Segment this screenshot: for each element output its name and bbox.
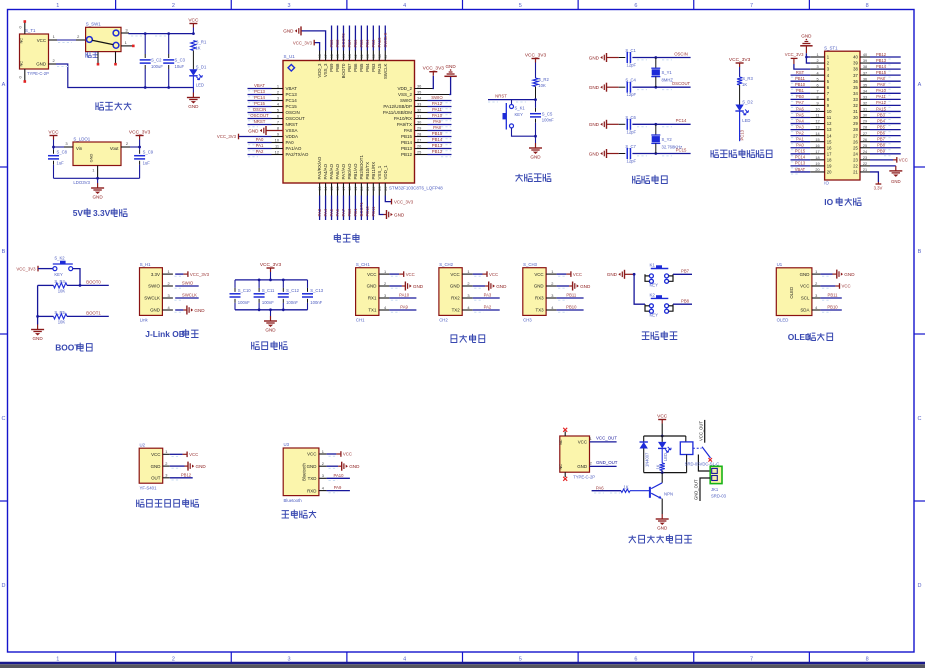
svg-text:PB14: PB14: [876, 64, 887, 69]
svg-text:31: 31: [853, 109, 858, 114]
svg-text:PB8: PB8: [681, 299, 690, 304]
svg-text:8: 8: [866, 3, 869, 9]
svg-text:OSCIN: OSCIN: [253, 107, 267, 112]
svg-text:TX2: TX2: [452, 308, 461, 313]
U3 pin4 net PA9: [327, 490, 350, 492]
U1 bottom pin 18 PB0/AO: [348, 183, 350, 196]
svg-text:100nF: 100nF: [238, 300, 250, 305]
svg-text:PB6: PB6: [353, 63, 358, 72]
U1 VDD_1 pin24 to VCC_3V3: [385, 196, 391, 202]
svg-text:BOOT0: BOOT0: [341, 33, 346, 48]
svg-text:PB12: PB12: [181, 472, 192, 477]
VCC_3V3 filter: [270, 268, 272, 272]
svg-text:40: 40: [366, 54, 370, 58]
svg-text:PB15: PB15: [432, 131, 443, 136]
U1 top pin 45 PB8: [337, 51, 339, 61]
U1 bottom pin 19 PB1/AO: [354, 183, 356, 196]
svg-text:4: 4: [322, 485, 325, 490]
connector S_CH2: [439, 268, 462, 316]
svg-text:PB7: PB7: [347, 39, 352, 48]
typec bottom pin: [564, 472, 566, 477]
svg-text:10: 10: [827, 109, 832, 114]
svg-text:NC: NC: [19, 61, 24, 67]
svg-text:BOOT1: BOOT1: [359, 202, 364, 217]
capacitor S_C13 100nF: [307, 280, 309, 288]
svg-text:PC14: PC14: [254, 95, 265, 100]
svg-text:PB10: PB10: [365, 206, 370, 217]
OLED pin1 GND: [820, 273, 832, 275]
svg-text:NRST: NRST: [495, 93, 507, 98]
svg-text:PB7: PB7: [347, 63, 352, 72]
svg-text:PB10: PB10: [566, 305, 577, 310]
svg-text:3: 3: [815, 293, 817, 298]
svg-text:1: 1: [551, 269, 553, 274]
svg-text:S_C2: S_C2: [151, 58, 162, 63]
svg-text:GND: GND: [188, 104, 199, 109]
svg-text:S_ST1: S_ST1: [824, 45, 838, 50]
svg-text:S_R5: S_R5: [54, 310, 65, 315]
U2 pin1 VCC: [170, 453, 183, 455]
svg-text:PA0: PA0: [796, 143, 804, 148]
jlink pin3 SWCLK net: [175, 297, 199, 299]
svg-text:IO: IO: [824, 181, 829, 186]
svg-text:PA12: PA12: [432, 101, 443, 106]
svg-text:4: 4: [403, 657, 406, 663]
svg-text:PA9: PA9: [400, 305, 408, 310]
svg-text:22: 22: [372, 187, 376, 191]
svg-text:VCC: VCC: [450, 272, 459, 277]
CH1 pin3 net PA10: [389, 297, 416, 299]
U1 top pin 40 PB4: [366, 51, 368, 61]
SW1 pin1 wire: [121, 45, 132, 47]
U1 top pin 46 PB9: [331, 51, 333, 61]
svg-text:3: 3: [551, 293, 553, 298]
svg-text:7: 7: [750, 657, 753, 663]
svg-text:RX3: RX3: [535, 296, 544, 301]
svg-text:S_R2: S_R2: [538, 77, 549, 82]
title main chip: [334, 233, 359, 242]
svg-text:VDD_3: VDD_3: [317, 63, 322, 78]
svg-text:U2: U2: [140, 442, 146, 447]
svg-text:BOOT0: BOOT0: [341, 63, 346, 78]
svg-text:24: 24: [384, 187, 388, 191]
svg-text:PA7/AO: PA7/AO: [341, 163, 346, 179]
wire GND_OUT: [590, 465, 617, 467]
svg-text:PB9: PB9: [329, 39, 334, 48]
svg-text:S_SW1: S_SW1: [86, 22, 101, 27]
relay top rail: [644, 435, 686, 437]
title dianyuan dianlu: [96, 102, 132, 110]
CH3 pin3 net PB11: [557, 297, 584, 299]
svg-text:PA8: PA8: [877, 76, 885, 81]
svg-text:2: 2: [126, 141, 129, 146]
capacitor S_C7 12pF: [619, 153, 626, 155]
ground relay: [661, 514, 663, 519]
svg-text:35: 35: [853, 85, 858, 90]
svg-text:48: 48: [318, 54, 322, 58]
VCC_3V3 symbol LDO out: [139, 136, 141, 140]
svg-text:VCC_3V3: VCC_3V3: [217, 134, 237, 139]
connector U2 YF-S401: [139, 448, 163, 483]
svg-text:VSS_3: VSS_3: [323, 63, 328, 77]
title bluetooth module: [282, 510, 317, 518]
svg-text:20: 20: [827, 170, 832, 175]
svg-text:PA1: PA1: [796, 137, 804, 142]
svg-text:PA10: PA10: [334, 473, 345, 478]
svg-text:47: 47: [324, 54, 328, 58]
svg-text:5: 5: [519, 3, 522, 9]
svg-text:PC15: PC15: [254, 101, 265, 106]
svg-text:18: 18: [827, 157, 832, 162]
svg-text:RST: RST: [796, 70, 805, 75]
svg-text:GND: GND: [607, 272, 618, 277]
svg-text:PB0: PB0: [347, 208, 352, 217]
svg-text:K2: K2: [650, 292, 656, 297]
title keys circuit: [642, 331, 678, 340]
svg-text:3: 3: [288, 3, 291, 9]
CH1 pin1 VCC: [389, 273, 399, 275]
U3 pin1 VCC: [327, 453, 337, 455]
svg-text:2: 2: [384, 281, 386, 286]
svg-text:VCC: VCC: [188, 18, 199, 24]
svg-text:Vin: Vin: [76, 146, 83, 151]
svg-text:Link: Link: [140, 317, 149, 322]
svg-text:1: 1: [322, 449, 324, 454]
svg-text:42: 42: [354, 54, 358, 58]
svg-text:VCC: VCC: [189, 452, 198, 457]
svg-text:1: 1: [53, 34, 56, 39]
svg-text:VCC_3V3: VCC_3V3: [190, 272, 210, 277]
svg-text:RXD: RXD: [307, 488, 316, 493]
svg-text:PA0: PA0: [286, 140, 295, 145]
U2 pin3 net PB12: [170, 477, 193, 479]
crystal S_Y2 32.768KHz: [654, 123, 657, 126]
svg-text:100nF: 100nF: [542, 118, 554, 123]
svg-text:Bluetooth: Bluetooth: [284, 498, 303, 503]
capacitor S_C5 100nF: [535, 100, 537, 108]
svg-text:PB13: PB13: [876, 58, 887, 63]
U1 top pin 41 PB5: [360, 51, 362, 61]
svg-text:SWIO: SWIO: [400, 98, 412, 103]
svg-text:PC13: PC13: [795, 161, 806, 166]
svg-text:VCC: VCC: [534, 272, 543, 277]
U1 bottom pin 17 PA7/AO: [342, 183, 344, 196]
svg-text:GND: GND: [496, 284, 507, 289]
connector U1 OLED: [776, 268, 812, 316]
ground LDO: [97, 178, 99, 183]
U1 bottom pin 21 PB10/TX: [366, 183, 368, 196]
GND_OUT wire: [700, 478, 710, 501]
CH2 pin3 net PA3: [473, 297, 500, 299]
CH3 pin2 GND: [557, 285, 570, 287]
key S_K2 KEY: [53, 267, 57, 271]
svg-text:VCC: VCC: [800, 284, 809, 289]
svg-text:KEY: KEY: [54, 272, 63, 277]
svg-text:SWCLK: SWCLK: [383, 32, 388, 47]
svg-text:3: 3: [384, 293, 386, 298]
U1 top pin 42 PB6: [354, 51, 356, 61]
svg-text:PA5: PA5: [329, 208, 334, 216]
svg-text:PA12: PA12: [876, 100, 886, 105]
svg-text:3: 3: [288, 657, 291, 663]
svg-text:PB11/RX: PB11/RX: [371, 162, 376, 180]
ST1 pin21 3.3V: [870, 172, 878, 182]
svg-text:100nF: 100nF: [310, 300, 322, 305]
svg-text:GND: GND: [413, 284, 424, 289]
svg-text:1: 1: [56, 657, 59, 663]
connector S_CH3: [523, 268, 546, 316]
svg-text:8MHZ: 8MHZ: [662, 78, 674, 83]
svg-text:STM32F103C8T6_LQFP48: STM32F103C8T6_LQFP48: [389, 186, 443, 191]
svg-text:PB13: PB13: [432, 143, 443, 148]
connector TYPE-C-2P output: [560, 436, 590, 472]
svg-text:S_C12: S_C12: [286, 288, 299, 293]
svg-text:PB8: PB8: [335, 63, 340, 72]
svg-text:VCC_3V3: VCC_3V3: [16, 266, 36, 271]
svg-text:S_C9: S_C9: [143, 150, 154, 155]
svg-text:PB6: PB6: [877, 130, 885, 135]
svg-text:PA3: PA3: [317, 208, 322, 216]
svg-text:37: 37: [384, 54, 388, 58]
svg-text:VCC_3V3: VCC_3V3: [260, 262, 282, 268]
svg-text:12pF: 12pF: [627, 63, 637, 68]
svg-text:22: 22: [853, 164, 858, 169]
svg-text:46: 46: [330, 54, 334, 58]
svg-text:VSSA: VSSA: [286, 128, 298, 133]
svg-text:PA5/AO: PA5/AO: [329, 163, 334, 179]
crystal S_Y1 8MHZ: [654, 56, 657, 59]
relay coil box: [685, 436, 687, 442]
svg-text:B: B: [918, 249, 922, 255]
svg-text:PA15: PA15: [377, 37, 382, 48]
svg-text:PC13: PC13: [286, 92, 298, 97]
resistor S_R2 10K: [533, 78, 538, 87]
svg-text:3.3V: 3.3V: [874, 186, 883, 191]
jlink pin1 VCC_3V3: [175, 273, 183, 275]
svg-text:VCC: VCC: [899, 158, 908, 163]
relay switch arm: [693, 447, 702, 449]
U3 pin3 net PA10: [327, 477, 350, 479]
svg-text:4: 4: [551, 305, 554, 310]
svg-text:PA11/USB/DM: PA11/USB/DM: [383, 110, 412, 115]
svg-text:14: 14: [827, 133, 832, 138]
svg-text:VCC: VCC: [48, 130, 59, 136]
svg-text:PB13: PB13: [401, 146, 413, 151]
typec top pin: [564, 432, 566, 437]
connector T1 TYPE-C-2P: [20, 34, 49, 69]
svg-text:3: 3: [65, 141, 68, 146]
connector S_ST1 IO header box: [825, 51, 860, 180]
U1 top pin 43 PB7: [348, 51, 350, 61]
svg-text:PA7: PA7: [341, 208, 346, 216]
svg-text:PA2/TX/AO: PA2/TX/AO: [286, 152, 309, 157]
svg-text:SWIO: SWIO: [431, 95, 443, 100]
gnd flag S_C6: [606, 120, 608, 129]
filter top rail: [235, 279, 308, 281]
bottom rail LDO: [54, 177, 140, 179]
svg-text:PA10: PA10: [399, 293, 410, 298]
svg-text:PB1: PB1: [353, 208, 358, 217]
LED S_D1: [189, 69, 197, 76]
svg-text:10K: 10K: [538, 83, 546, 88]
svg-text:KEY: KEY: [650, 313, 659, 318]
svg-text:1K: 1K: [742, 82, 747, 87]
svg-text:GND: GND: [196, 464, 207, 469]
svg-text:SRD-03: SRD-03: [711, 493, 727, 498]
svg-text:D: D: [918, 583, 922, 589]
svg-text:GND: GND: [580, 284, 591, 289]
svg-text:OLED: OLED: [777, 317, 789, 322]
svg-text:VCC: VCC: [578, 440, 587, 445]
svg-text:3: 3: [165, 473, 167, 478]
CH2 pin1 VCC: [473, 273, 483, 275]
svg-text:PB5: PB5: [877, 124, 885, 129]
svg-text:VBAT: VBAT: [795, 167, 806, 172]
svg-text:PA6: PA6: [596, 485, 604, 490]
svg-text:PB12: PB12: [401, 152, 413, 157]
title serial circuit: [451, 334, 485, 343]
LED S_D2: [735, 105, 743, 112]
svg-text:PB8: PB8: [877, 143, 885, 148]
svg-text:GND: GND: [283, 29, 294, 34]
U1 bottom pin 13 PA3/RX/AO: [319, 183, 321, 196]
svg-text:23: 23: [853, 157, 858, 162]
svg-text:25: 25: [853, 145, 858, 150]
U1 bottom pin 20 PB2/BOOT1: [360, 183, 362, 196]
svg-text:PA2: PA2: [484, 305, 492, 310]
svg-text:RX2: RX2: [451, 296, 460, 301]
U1 top pin 38 PA15: [378, 51, 380, 61]
svg-text:GND: GND: [800, 272, 810, 277]
ST1 pin22 GND: [870, 165, 896, 167]
svg-text:45: 45: [336, 54, 340, 58]
svg-text:30: 30: [853, 115, 858, 120]
svg-text:LDO3V3: LDO3V3: [73, 180, 90, 185]
relay bottom rail: [644, 472, 687, 474]
svg-text:NC: NC: [558, 464, 563, 470]
svg-text:1: 1: [815, 269, 817, 274]
svg-text:BOOT: BOOT: [55, 343, 80, 353]
svg-text:12pF: 12pF: [627, 92, 637, 97]
svg-text:14: 14: [324, 187, 328, 191]
svg-text:D: D: [2, 583, 6, 589]
svg-text:2: 2: [590, 461, 592, 466]
svg-text:1uF: 1uF: [143, 161, 151, 166]
T1 top pin 0: [24, 23, 26, 35]
svg-text:PB7: PB7: [681, 269, 690, 274]
capacitor S_C1 12pF: [619, 57, 626, 59]
svg-text:GND: GND: [150, 308, 160, 313]
svg-text:12: 12: [827, 121, 832, 126]
svg-text:21: 21: [366, 187, 370, 191]
relay common wire: [698, 455, 710, 472]
svg-text:S_D2: S_D2: [742, 100, 753, 105]
wire K2 to BOOT0 junction: [73, 269, 80, 286]
CH1 pin4 net PA9: [389, 309, 416, 311]
svg-text:GND: GND: [265, 328, 276, 333]
svg-text:S_C11: S_C11: [262, 288, 275, 293]
title filter circuit: [252, 341, 287, 350]
U1 bottom pin 22 PB11/RX: [372, 183, 374, 196]
U1 top pin 37 SWCLK: [384, 51, 386, 61]
svg-text:2: 2: [322, 461, 324, 466]
svg-text:GND: GND: [801, 34, 812, 39]
svg-text:23: 23: [378, 187, 382, 191]
svg-text:NPN: NPN: [664, 492, 673, 497]
svg-text:19: 19: [827, 164, 832, 169]
svg-text:S_C10: S_C10: [238, 288, 251, 293]
svg-text:1: 1: [92, 168, 95, 173]
svg-text:TYPE-C-2P: TYPE-C-2P: [27, 71, 49, 76]
svg-text:2: 2: [815, 281, 817, 286]
svg-text:CH3: CH3: [523, 317, 532, 322]
svg-text:15: 15: [827, 139, 832, 144]
svg-text:GND_OUT: GND_OUT: [596, 460, 618, 465]
svg-text:TXD: TXD: [308, 476, 317, 481]
svg-text:BOOT0: BOOT0: [86, 280, 101, 285]
ground below D1: [192, 88, 194, 93]
switch S_SW1: [86, 27, 121, 51]
svg-text:PA6: PA6: [796, 106, 804, 111]
svg-text:VCC: VCC: [307, 452, 316, 457]
svg-text:KEY: KEY: [515, 112, 524, 117]
title run led: [711, 149, 772, 157]
svg-text:32.768KHz: 32.768KHz: [662, 144, 683, 149]
U2 pin2 GND: [170, 465, 185, 467]
LDO S_LDO1 box: [73, 142, 121, 166]
svg-text:VBAT: VBAT: [254, 83, 265, 88]
svg-text:PA4: PA4: [323, 208, 328, 216]
svg-text:3: 3: [322, 473, 324, 478]
svg-text:PB10: PB10: [795, 82, 806, 87]
svg-text:3: 3: [125, 28, 128, 33]
svg-text:SWIO: SWIO: [182, 281, 194, 286]
svg-text:Vout: Vout: [110, 146, 119, 151]
svg-text:PB0: PB0: [796, 94, 804, 99]
svg-text:PA4: PA4: [796, 118, 804, 123]
svg-text:PB11: PB11: [371, 206, 376, 217]
svg-text:28: 28: [853, 127, 858, 132]
svg-text:SCL: SCL: [801, 296, 810, 301]
svg-text:GND: GND: [194, 308, 205, 313]
svg-text:17: 17: [827, 151, 832, 156]
svg-text:19: 19: [354, 187, 358, 191]
svg-text:PB14: PB14: [401, 140, 413, 145]
key K1 net PB7: [673, 273, 692, 275]
svg-text:PA9: PA9: [334, 485, 342, 490]
gnd flag S_C4: [606, 83, 608, 92]
svg-text:RX1: RX1: [368, 296, 377, 301]
VCC symbol LDO input: [53, 136, 55, 140]
capacitor S_C10 100nF: [234, 280, 236, 288]
svg-text:S_T1: S_T1: [25, 28, 36, 33]
svg-text:OSCIN: OSCIN: [674, 51, 688, 56]
svg-text:PA3/RX/AO: PA3/RX/AO: [317, 156, 322, 179]
svg-text:1: 1: [125, 40, 128, 45]
svg-text:S_C6: S_C6: [625, 115, 636, 120]
svg-text:0: 0: [19, 25, 22, 30]
svg-text:34: 34: [853, 91, 858, 96]
svg-text:PB3: PB3: [371, 39, 376, 48]
svg-text:S_C13: S_C13: [310, 288, 323, 293]
svg-text:2: 2: [52, 58, 55, 63]
VCC_3V3 run led: [739, 63, 741, 67]
T1 bottom pin 0: [24, 69, 26, 81]
svg-text:21: 21: [853, 170, 858, 175]
svg-text:SDA: SDA: [800, 308, 809, 313]
svg-text:GND: GND: [349, 464, 360, 469]
svg-text:NC: NC: [558, 439, 563, 445]
